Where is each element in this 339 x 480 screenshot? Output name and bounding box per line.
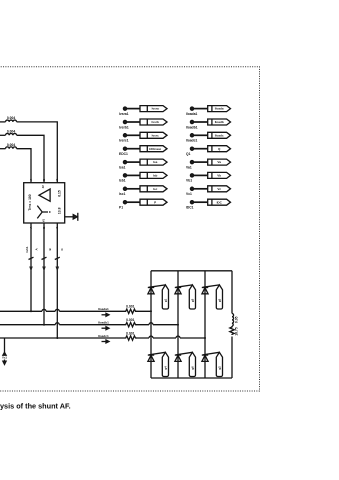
junction bus2 / leg2 (177, 324, 179, 326)
svg-text:Ivsra: Ivsra (152, 107, 159, 111)
wire L1 to transformer terminal C (17, 122, 58, 183)
firing pulse block g5 (216, 285, 222, 309)
wire Vc1 to channel (194, 188, 208, 190)
svg-text:A: A (35, 248, 39, 251)
svg-text:g5: g5 (217, 298, 221, 302)
wire Isb1 to channel (127, 174, 140, 176)
transformer wye winding #1 (37, 206, 61, 222)
wire Va1 to channel (194, 161, 208, 163)
output channel Isc (140, 186, 167, 192)
breakout label Ish1 (25, 246, 64, 252)
hop bus1 over wire B (42, 309, 46, 311)
svg-text:Ivsrb1: Ivsrb1 (119, 125, 129, 129)
svg-text:P1: P1 (119, 206, 123, 210)
svg-text:Isb1: Isb1 (119, 179, 126, 183)
wire L3 to transformer terminal A (17, 149, 31, 183)
node Isb1 (119, 174, 127, 183)
hop bus3 over bridge leg1 (149, 336, 153, 338)
svg-text:0.001: 0.001 (126, 305, 135, 309)
svg-text:Iloadb1: Iloadb1 (186, 125, 198, 129)
svg-text:18.75: 18.75 (235, 327, 239, 336)
bridge top rail (151, 270, 232, 272)
output channel Ivsrb (140, 119, 167, 125)
svg-text:Iloadb: Iloadb (215, 120, 224, 124)
junction bus1 / leg1 (150, 310, 152, 312)
svg-text:Isb: Isb (153, 174, 158, 178)
svg-text:P: P (154, 200, 156, 204)
transformer label Trns = 100 (28, 194, 32, 210)
firing pulse block g1 (162, 285, 168, 309)
inductor L2 0.004 (phase b source) (0, 129, 17, 135)
svg-text:Iloada1: Iloada1 (98, 307, 109, 311)
thyristor Q3 (leg2 upper) (175, 285, 193, 294)
current label Iloadc1 (98, 334, 109, 338)
wire phase C transformer to bus3 (56, 223, 58, 338)
svg-text:C: C (55, 179, 59, 181)
wire Vb1 to channel (194, 174, 208, 176)
node Ivsra1 (119, 107, 129, 116)
transformer delta winding #2 (39, 185, 61, 201)
node Iloadc1 (186, 134, 198, 143)
svg-text:EDC1: EDC1 (119, 152, 128, 156)
firing pulse block g6 (189, 352, 195, 376)
svg-text:Iloadc: Iloadc (215, 133, 224, 137)
node Isc1 (119, 187, 127, 196)
wire Iloadb1 to channel (194, 121, 208, 123)
svg-text:g1: g1 (163, 298, 167, 302)
bridge bottom rail (151, 377, 232, 379)
wire Isa1 to channel (127, 161, 140, 163)
output channel IDC (208, 199, 231, 205)
svg-text:Ivsrb: Ivsrb (152, 120, 159, 124)
wire phase A transformer to bus1 (30, 223, 32, 311)
node Vb1 (186, 174, 194, 183)
output channel Iloadb (208, 119, 231, 125)
firing pulse block g4 (162, 352, 168, 376)
bus3 (phase c) (0, 337, 205, 339)
svg-text:0.001: 0.001 (126, 318, 135, 322)
wire phase B transformer to bus2 (43, 223, 45, 325)
svg-text:Isa1: Isa1 (119, 165, 126, 169)
svg-text:Iloadc1: Iloadc1 (98, 334, 109, 338)
svg-text:Iloadb1: Iloadb1 (98, 321, 109, 325)
svg-text:0.05: 0.05 (235, 316, 239, 323)
svg-text:Isc: Isc (153, 187, 158, 191)
node P1 (119, 201, 127, 210)
tick marks on phase wires (29, 257, 60, 259)
svg-text:C: C (60, 248, 64, 251)
svg-text:Iloadc1: Iloadc1 (186, 139, 198, 143)
node Iloada1 (186, 107, 198, 116)
output channel Vc (208, 186, 231, 192)
wire P1 to channel (127, 201, 140, 203)
bridge leg 1 (150, 271, 152, 378)
svg-text:Vs1: Vs1 (2, 355, 7, 359)
thyristor Q2 (leg3 lower) (202, 352, 220, 361)
thyristor Q6 (leg2 lower) (175, 352, 193, 361)
svg-text:Vc1: Vc1 (186, 192, 192, 196)
inductor L3 0.004 (phase c source) (0, 143, 17, 149)
dashed figure border (0, 67, 260, 391)
DC side branch (231, 271, 233, 378)
firing pulse block g3 (189, 285, 195, 309)
node IDC1 (186, 201, 194, 210)
svg-text:13.8: 13.8 (57, 207, 61, 214)
output channel EDCmean (140, 146, 167, 152)
wire Ivsrc1 to channel (127, 134, 140, 136)
current direction arrowheads down (29, 267, 59, 272)
svg-text:#2: #2 (41, 185, 45, 188)
svg-text:0.004: 0.004 (7, 116, 16, 120)
junction wire A / bus1 (30, 310, 32, 312)
wire Iloada1 to channel (194, 108, 208, 110)
thyristor Q5 (leg3 upper) (202, 285, 220, 294)
junction bus3 / leg3 (204, 337, 206, 339)
output channel Iloadc (208, 132, 231, 138)
svg-text:A: A (29, 179, 33, 181)
node Vc1 (186, 187, 194, 196)
svg-text:Va: Va (217, 160, 221, 164)
wire Isc1 to channel (127, 188, 140, 190)
junction wire B / bus2 (43, 324, 45, 326)
DC inductor 0.05 (232, 314, 239, 327)
node Isa1 (119, 161, 127, 170)
svg-text:Ivsrc: Ivsrc (152, 133, 159, 137)
junction wire C / bus3 (56, 337, 58, 339)
svg-text:Vc: Vc (217, 187, 221, 191)
resistor 0.001 (phase c) (125, 331, 137, 340)
svg-text:g4: g4 (163, 366, 167, 370)
node EDC1 (119, 147, 128, 156)
svg-text:g6: g6 (190, 366, 194, 370)
wire Q1 to channel (194, 148, 208, 150)
firing pulse block g2 (216, 352, 222, 376)
svg-text:Iloada1: Iloada1 (186, 112, 198, 116)
transformer bottom terminal labels A B C (29, 227, 59, 229)
svg-text:ysis of the shunt AF.: ysis of the shunt AF. (0, 401, 71, 410)
svg-text:Va1: Va1 (186, 165, 192, 169)
thyristor Q4 (leg1 lower) (148, 352, 166, 361)
svg-text:Q1: Q1 (186, 152, 191, 156)
output channel Ivsra (140, 106, 167, 112)
bridge leg 2 (177, 271, 179, 378)
svg-text:g3: g3 (190, 298, 194, 302)
hop bus3 over bridge leg2 (176, 336, 180, 338)
current arrow c (102, 340, 110, 343)
svg-text:Vb1: Vb1 (186, 179, 192, 183)
wire Iloadc1 to channel (194, 134, 208, 136)
wire EDC1 to channel (127, 148, 140, 150)
bus2 (phase b) (0, 324, 178, 326)
svg-text:Trns = 100: Trns = 100 (28, 194, 32, 210)
DC resistor 18.75 (230, 327, 239, 336)
hop bus1 over wire C (55, 309, 59, 311)
output channel Q (208, 146, 231, 152)
output channel Isa (140, 159, 167, 165)
output channel P (140, 199, 167, 205)
svg-text:#1: #1 (42, 219, 46, 222)
svg-text:Isa: Isa (153, 160, 158, 164)
svg-text:6.15: 6.15 (57, 190, 61, 197)
hop bus2 over wire C (55, 323, 59, 325)
hop bus2 over bridge leg1 (149, 323, 153, 325)
output channel Vb (208, 172, 231, 178)
svg-text:Ivsra1: Ivsra1 (119, 112, 129, 116)
transformer top terminal labels A B C (29, 179, 59, 181)
resistor 0.001 (phase b) (125, 318, 137, 327)
svg-text:Iloada: Iloada (215, 107, 224, 111)
node Iloadb1 (186, 120, 198, 129)
inductor L1 0.004 (phase a source) (0, 116, 17, 122)
wire IDC1 to channel (194, 201, 208, 203)
wire Ivsra1 to channel (127, 108, 140, 110)
output channel Ivsrc (140, 132, 167, 138)
wire Ivsrb1 to channel (127, 121, 140, 123)
node Ivsrc1 (119, 134, 129, 143)
current arrow b (102, 327, 110, 330)
output channel Va (208, 159, 231, 165)
transformer T1 box (24, 183, 65, 223)
svg-text:IDC1: IDC1 (186, 206, 194, 210)
svg-text:Ivsrc1: Ivsrc1 (119, 139, 129, 143)
bus1 (phase a) (0, 310, 151, 312)
ground (transformer neutral, rotated) (65, 213, 78, 221)
svg-text:Isc1: Isc1 (119, 192, 126, 196)
svg-text:IDC: IDC (217, 200, 223, 204)
current arrow a (102, 313, 110, 316)
current label Iloada1 (98, 307, 109, 311)
thyristor Q1 (leg1 upper) (148, 285, 166, 294)
svg-text:g2: g2 (217, 366, 221, 370)
svg-text:0.004: 0.004 (7, 129, 16, 133)
node Q1 (186, 147, 194, 156)
wire L2 to transformer terminal B (17, 135, 44, 182)
svg-text:B: B (42, 179, 46, 181)
svg-text:EDCmean: EDCmean (149, 148, 161, 151)
svg-text:B: B (48, 248, 52, 251)
caption text (0, 401, 71, 410)
svg-text:Ish1: Ish1 (25, 246, 29, 252)
bridge leg 3 (204, 271, 206, 378)
svg-text:0.004: 0.004 (7, 143, 16, 147)
output channel Isb (140, 172, 167, 178)
node Ivsrb1 (119, 120, 129, 129)
resistor 0.001 (phase a) (125, 305, 137, 314)
node Va1 (186, 161, 194, 170)
svg-text:0.001: 0.001 (126, 331, 135, 335)
svg-text:Vb: Vb (217, 174, 221, 178)
svg-text:Q: Q (218, 147, 221, 151)
voltmeter Vs1 (2, 338, 7, 364)
output channel Iloada (208, 106, 231, 112)
current label Iloadb1 (98, 321, 109, 325)
